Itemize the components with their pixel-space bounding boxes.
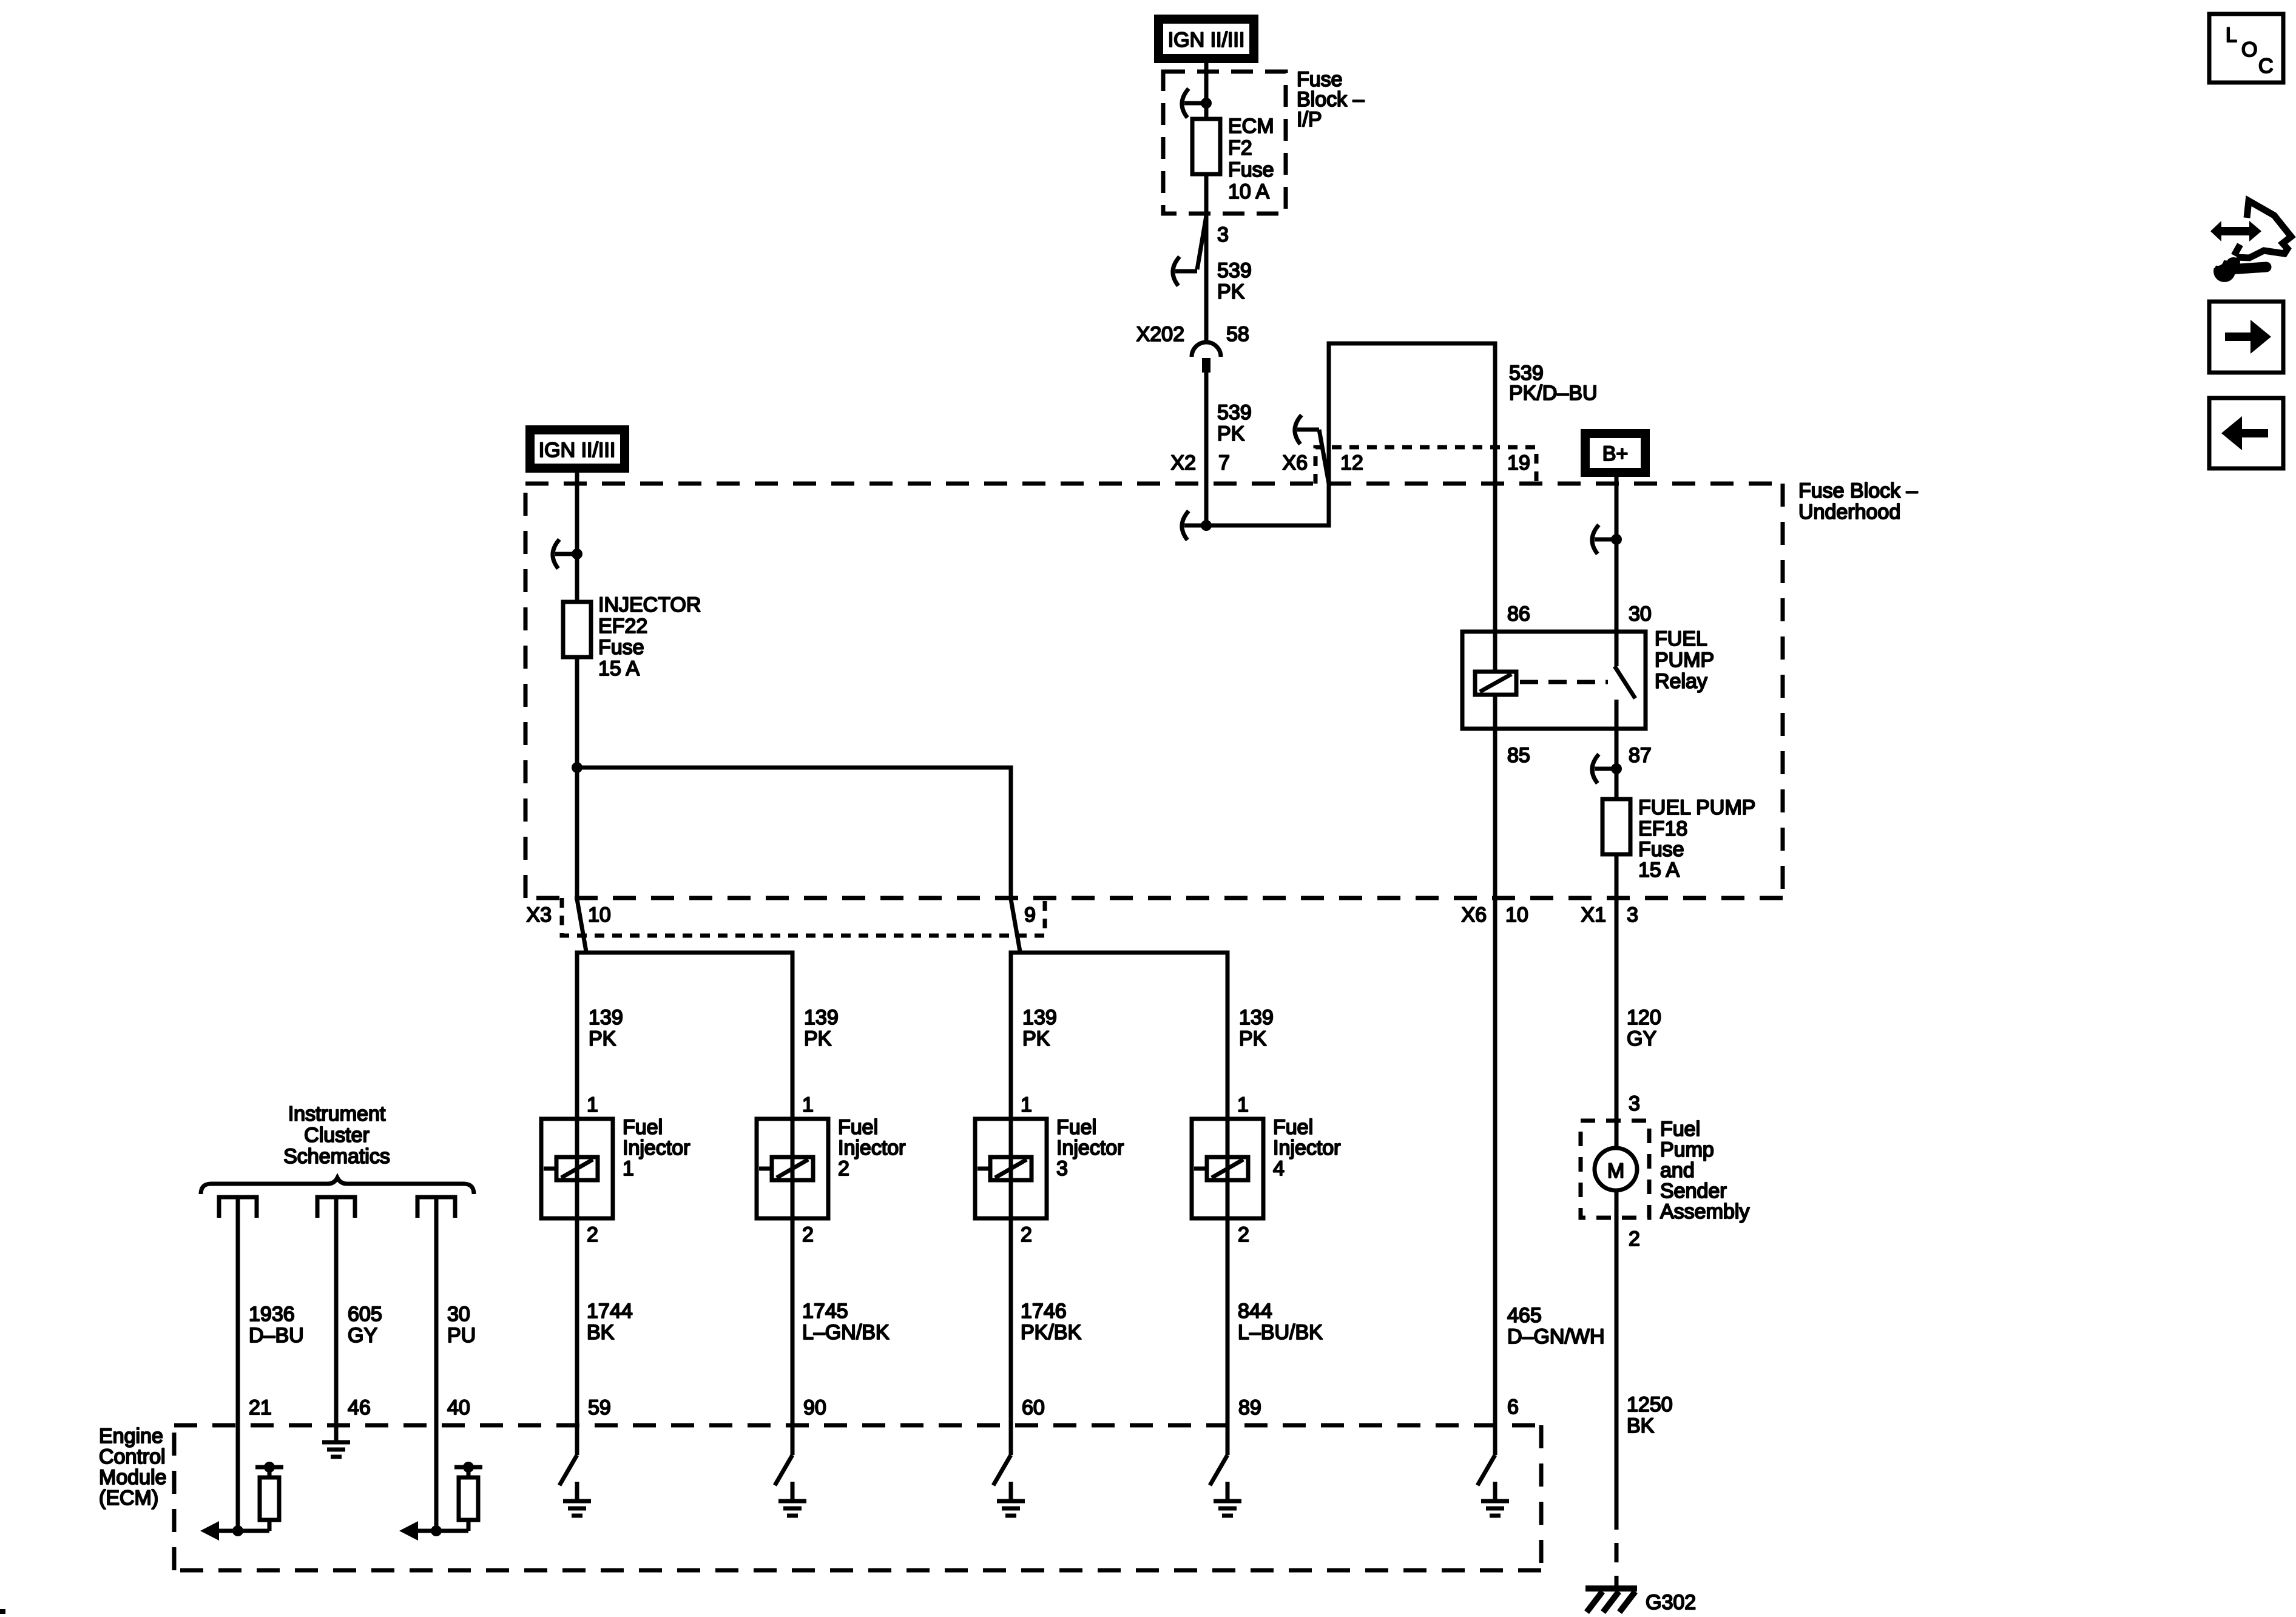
connector lead slant at X3 pin 10 bbox=[577, 899, 586, 951]
wire loop to relay coil: right, up, across, down to pin 86 bbox=[1206, 343, 1495, 632]
svg-text:PK: PK bbox=[804, 1027, 832, 1050]
svg-text:Fuel: Fuel bbox=[1056, 1116, 1096, 1139]
fuel pump dashed box bbox=[1581, 1121, 1649, 1218]
svg-text:465: 465 bbox=[1507, 1304, 1542, 1327]
connector strip X3/10/9 dotted outline bbox=[562, 898, 1045, 936]
svg-text:87: 87 bbox=[1629, 744, 1652, 767]
svg-text:60: 60 bbox=[1022, 1396, 1045, 1419]
svg-text:1: 1 bbox=[587, 1093, 598, 1116]
ECM internal resistor branch 2 (pin 40) bbox=[454, 1462, 482, 1531]
wire label 1746 PK/BK bbox=[1021, 1300, 1081, 1344]
ground injector 4 driver bbox=[1214, 1482, 1241, 1516]
svg-text:3: 3 bbox=[1217, 223, 1229, 246]
power tag IGN II/III (top, fuse block I/P feed) bbox=[1154, 15, 1258, 63]
svg-text:Cluster: Cluster bbox=[304, 1124, 370, 1147]
wire label 1745 L-GN/BK bbox=[802, 1300, 890, 1344]
svg-text:PK/D–BU: PK/D–BU bbox=[1509, 382, 1598, 405]
wire label 539 PK/D-BU bbox=[1509, 362, 1598, 405]
connector lead slant at X6 pin 12 bbox=[1319, 430, 1329, 484]
svg-text:3: 3 bbox=[1627, 903, 1638, 927]
svg-text:Fuel: Fuel bbox=[838, 1116, 878, 1139]
wire EF22 output down to X3 pin 10 bbox=[575, 657, 579, 898]
svg-text:X6: X6 bbox=[1282, 451, 1308, 474]
engine control module dashed box bbox=[174, 1425, 1541, 1570]
svg-text:2: 2 bbox=[1021, 1223, 1032, 1246]
ground G302 (chassis) bbox=[1585, 1588, 1637, 1612]
svg-text:and: and bbox=[1660, 1159, 1695, 1182]
page artifact dot bottom-left bbox=[0, 1609, 5, 1614]
junction node at EF22 input bbox=[572, 549, 582, 559]
splice hook on B+ feed bbox=[1592, 525, 1616, 554]
icon LOC box bbox=[2209, 14, 2283, 83]
label Engine Control Module (ECM) bbox=[99, 1425, 167, 1510]
svg-text:B+: B+ bbox=[1602, 442, 1629, 465]
svg-text:2: 2 bbox=[802, 1223, 814, 1246]
svg-text:90: 90 bbox=[803, 1396, 826, 1419]
wire label 139 PK (injector 1) bbox=[589, 1006, 623, 1050]
svg-text:D–GN/WH: D–GN/WH bbox=[1507, 1325, 1605, 1348]
svg-text:L–BU/BK: L–BU/BK bbox=[1238, 1321, 1323, 1344]
splice hook at fuse F2 input bbox=[1182, 89, 1206, 118]
svg-text:7: 7 bbox=[1218, 451, 1230, 474]
wire 539 PK from X202 to fuse block underhood X2 pin 7 bbox=[1204, 372, 1209, 525]
svg-text:Pump: Pump bbox=[1660, 1138, 1714, 1161]
svg-text:Injector: Injector bbox=[623, 1136, 690, 1160]
label Fuse Block - I/P bbox=[1297, 68, 1365, 131]
svg-text:139: 139 bbox=[1239, 1006, 1274, 1029]
label Fuel Injector 2 bbox=[838, 1116, 906, 1180]
svg-text:Module: Module bbox=[99, 1466, 167, 1489]
splice hook at EF22 input bbox=[553, 539, 577, 569]
svg-text:Underhood: Underhood bbox=[1798, 501, 1900, 524]
relay switch blade bbox=[1615, 666, 1635, 698]
wire injector 4 pin 2 to ECM pin 89 bbox=[1226, 1218, 1230, 1455]
svg-text:X3: X3 bbox=[526, 903, 552, 927]
wire label 844 L-BU/BK bbox=[1238, 1300, 1323, 1344]
wire label 139 PK (injector 3) bbox=[1022, 1006, 1057, 1050]
relay pin 87 wire bbox=[1615, 700, 1619, 729]
ground relay control driver bbox=[1481, 1482, 1509, 1516]
label Fuel Injector 1 bbox=[623, 1116, 690, 1180]
wire injector 3 pin 2 to ECM pin 60 bbox=[1009, 1218, 1013, 1455]
svg-text:85: 85 bbox=[1507, 744, 1530, 767]
label ECM F2 Fuse 10 A bbox=[1228, 115, 1274, 203]
svg-text:1744: 1744 bbox=[587, 1300, 633, 1323]
svg-text:Engine: Engine bbox=[99, 1425, 163, 1448]
svg-text:PK/BK: PK/BK bbox=[1021, 1321, 1081, 1344]
power tag B+ bbox=[1581, 429, 1650, 477]
junction node below pin 87 bbox=[1611, 763, 1622, 774]
label Fuel Injector 4 bbox=[1273, 1116, 1341, 1180]
ECM driver switch injector 3 bbox=[993, 1455, 1011, 1485]
svg-text:Injector: Injector bbox=[1273, 1136, 1341, 1160]
label FUEL PUMP Relay bbox=[1655, 627, 1714, 693]
junction node branch 2 bbox=[431, 1525, 442, 1536]
junction node at F2 input bbox=[1201, 98, 1212, 109]
wire label 139 PK (injector 2) bbox=[804, 1006, 839, 1050]
svg-text:Injector: Injector bbox=[838, 1136, 906, 1160]
svg-text:15 A: 15 A bbox=[1638, 859, 1680, 882]
wire label 30 PU bbox=[447, 1303, 476, 1347]
svg-text:X1: X1 bbox=[1581, 903, 1606, 927]
connector strip X6/12/19 dotted outline bbox=[1315, 447, 1536, 484]
svg-text:Relay: Relay bbox=[1655, 670, 1707, 693]
wire from pin 10 to fuel injector 1 and branch to injector 2 bbox=[577, 953, 792, 1119]
svg-text:21: 21 bbox=[249, 1396, 272, 1419]
wire relay pin 85 to X6 pin 10 bbox=[1493, 729, 1497, 898]
wire branch across to X3 pin 9 bbox=[577, 768, 1011, 898]
junction node on B+ feed bbox=[1611, 534, 1622, 545]
svg-text:INJECTOR: INJECTOR bbox=[598, 593, 701, 616]
svg-text:12: 12 bbox=[1340, 451, 1363, 474]
svg-text:Fuse: Fuse bbox=[1228, 158, 1274, 181]
svg-text:15 A: 15 A bbox=[598, 657, 640, 680]
label INJECTOR EF22 Fuse 15 A bbox=[598, 593, 701, 680]
svg-text:PU: PU bbox=[447, 1324, 476, 1347]
fuse EF18 (FUEL PUMP fuse 15A) bbox=[1602, 799, 1630, 854]
svg-text:139: 139 bbox=[804, 1006, 839, 1029]
svg-text:844: 844 bbox=[1238, 1300, 1272, 1323]
svg-text:3: 3 bbox=[1629, 1092, 1640, 1115]
svg-text:1745: 1745 bbox=[802, 1300, 848, 1323]
wire 1936 D-BU to ECM pin 21 bbox=[236, 1197, 240, 1531]
wire label 1744 BK bbox=[587, 1300, 633, 1344]
connector lead slant at X3 pin 9 bbox=[1011, 899, 1020, 951]
svg-text:Fuse: Fuse bbox=[1638, 838, 1684, 861]
brace under instrument cluster label bbox=[201, 1178, 474, 1194]
branch 2 bottom wire with arrow bbox=[399, 1521, 468, 1541]
fuel pump relay box bbox=[1462, 632, 1646, 729]
svg-text:139: 139 bbox=[1022, 1006, 1057, 1029]
connector stub (cluster wire 3) bbox=[417, 1197, 455, 1218]
svg-text:1936: 1936 bbox=[249, 1303, 295, 1326]
connector X202 pin 58 (半circle + pin) bbox=[1192, 342, 1221, 373]
svg-text:Fuse: Fuse bbox=[598, 636, 644, 659]
label Fuel Injector 3 bbox=[1056, 1116, 1124, 1180]
svg-text:EF22: EF22 bbox=[598, 615, 647, 638]
icon adjust tool (part outline) bbox=[2234, 201, 2291, 258]
svg-text:M: M bbox=[1607, 1160, 1624, 1183]
svg-text:Control: Control bbox=[99, 1445, 166, 1468]
junction node branch 1 bbox=[232, 1525, 243, 1536]
ECM driver switch injector 4 bbox=[1210, 1455, 1227, 1485]
wire label 605 GY bbox=[348, 1303, 382, 1347]
svg-text:1250: 1250 bbox=[1627, 1393, 1673, 1416]
ECM internal resistor branch 1 (pin 21) bbox=[255, 1462, 283, 1531]
svg-text:2: 2 bbox=[838, 1157, 849, 1180]
ground at ECM pin 46 bbox=[322, 1423, 350, 1457]
wire EF18 to X1 pin 3 bbox=[1615, 854, 1619, 898]
icon adjust tool (wrench) bbox=[2198, 245, 2266, 282]
svg-text:6: 6 bbox=[1507, 1396, 1519, 1419]
ECM driver switch injector 1 bbox=[559, 1455, 577, 1485]
wire label 1250 BK bbox=[1627, 1393, 1673, 1437]
svg-text:10: 10 bbox=[588, 903, 611, 927]
svg-text:D–BU: D–BU bbox=[249, 1324, 304, 1347]
svg-text:2: 2 bbox=[1238, 1223, 1249, 1246]
svg-text:40: 40 bbox=[447, 1396, 470, 1419]
fuse EF22 (INJECTOR fuse 15A) bbox=[563, 602, 591, 657]
fuel injector 2 (solenoid box) bbox=[757, 1119, 828, 1218]
svg-text:3: 3 bbox=[1056, 1157, 1068, 1180]
svg-text:Injector: Injector bbox=[1056, 1136, 1124, 1160]
ground injector 3 driver bbox=[997, 1482, 1025, 1516]
relay coil wire pin 86 to coil bbox=[1493, 632, 1497, 672]
splice hook below pin 87 bbox=[1592, 754, 1616, 783]
connector stub (cluster wire 2) bbox=[317, 1197, 355, 1218]
svg-text:2: 2 bbox=[587, 1223, 598, 1246]
label Fuel Pump and Sender Assembly bbox=[1660, 1118, 1749, 1223]
svg-text:1: 1 bbox=[1021, 1093, 1032, 1116]
hook at pin 3 lead bbox=[1173, 257, 1197, 286]
icon back arrow box bbox=[2209, 398, 2283, 468]
svg-text:O: O bbox=[2241, 38, 2257, 61]
label Fuse Block - Underhood bbox=[1798, 479, 1918, 524]
wire 465 D-GN/WH relay pin 85 to ECM pin 6 bbox=[1493, 898, 1497, 1455]
ground injector 1 driver bbox=[563, 1482, 591, 1516]
svg-text:PUMP: PUMP bbox=[1655, 649, 1714, 672]
svg-text:86: 86 bbox=[1507, 603, 1530, 626]
dashed wire to G302 bbox=[1615, 1510, 1619, 1587]
svg-text:539: 539 bbox=[1217, 259, 1252, 282]
relay pin 30 wire bbox=[1615, 632, 1619, 666]
svg-text:L–GN/BK: L–GN/BK bbox=[802, 1321, 890, 1344]
svg-text:GY: GY bbox=[1627, 1027, 1656, 1050]
svg-text:Fuel: Fuel bbox=[623, 1116, 663, 1139]
wire from IGN II/III into fuse block I/P bbox=[1204, 63, 1209, 119]
wire 539 PK from fuse F2 pin 3 to X202 bbox=[1204, 174, 1209, 342]
wire 120 GY X1 pin 3 to fuel pump bbox=[1615, 898, 1619, 1148]
wire from B+ to relay pin 30 bbox=[1615, 477, 1619, 632]
svg-text:BK: BK bbox=[1627, 1414, 1655, 1437]
svg-text:ECM: ECM bbox=[1228, 115, 1274, 138]
connector stub (cluster wire 1) bbox=[219, 1197, 257, 1218]
ground injector 2 driver bbox=[778, 1482, 806, 1516]
svg-text:C: C bbox=[2258, 55, 2274, 78]
svg-text:FUEL PUMP: FUEL PUMP bbox=[1638, 796, 1755, 819]
svg-text:PK: PK bbox=[1022, 1027, 1050, 1050]
svg-text:F2: F2 bbox=[1228, 137, 1252, 160]
relay coil (rect with slash) bbox=[1475, 672, 1516, 695]
wire relay pin 87 to fuse EF18 bbox=[1615, 729, 1619, 799]
hook at X6 pin 12 lead bbox=[1295, 415, 1319, 444]
svg-text:PK: PK bbox=[589, 1027, 616, 1050]
svg-text:PK: PK bbox=[1217, 422, 1245, 445]
wire 1250 BK pump pin 2 to ground bbox=[1615, 1190, 1619, 1510]
svg-text:30: 30 bbox=[447, 1303, 470, 1326]
wire label 539 PK bbox=[1217, 259, 1252, 303]
ECM driver switch injector 2 bbox=[775, 1455, 792, 1485]
svg-text:Fuel: Fuel bbox=[1660, 1118, 1700, 1141]
svg-text:X202: X202 bbox=[1136, 323, 1184, 346]
svg-text:Assembly: Assembly bbox=[1660, 1200, 1749, 1223]
svg-text:Schematics: Schematics bbox=[283, 1145, 390, 1168]
svg-text:58: 58 bbox=[1226, 323, 1249, 346]
svg-text:L: L bbox=[2226, 24, 2237, 47]
label FUEL PUMP EF18 Fuse 15 A bbox=[1638, 796, 1755, 882]
svg-text:10: 10 bbox=[1505, 903, 1528, 927]
svg-text:Instrument: Instrument bbox=[288, 1102, 386, 1126]
icon adjust tool (double arrow) bbox=[2210, 221, 2261, 241]
power tag IGN II/III (injector fuse feed) bbox=[525, 425, 629, 473]
fuel injector 4 (solenoid box) bbox=[1192, 1119, 1263, 1218]
ECM driver switch relay control bbox=[1477, 1455, 1495, 1485]
svg-text:19: 19 bbox=[1507, 451, 1530, 474]
svg-text:G302: G302 bbox=[1646, 1591, 1696, 1614]
svg-text:PK: PK bbox=[1217, 280, 1245, 303]
svg-text:X6: X6 bbox=[1461, 903, 1487, 927]
relay coil to pin 85 wire bbox=[1493, 695, 1497, 729]
wire injector 2 pin 2 to ECM pin 90 bbox=[791, 1218, 795, 1455]
svg-text:139: 139 bbox=[589, 1006, 623, 1029]
svg-text:1: 1 bbox=[802, 1093, 814, 1116]
svg-text:46: 46 bbox=[348, 1396, 371, 1419]
wire label 120 GY bbox=[1627, 1006, 1661, 1050]
relay actuating dashed link bbox=[1520, 680, 1608, 684]
svg-text:Fuse Block –: Fuse Block – bbox=[1798, 479, 1918, 502]
wire label 539 PK bbox=[1217, 401, 1252, 445]
svg-text:BK: BK bbox=[587, 1321, 615, 1344]
label Instrument Cluster Schematics bbox=[283, 1102, 390, 1168]
svg-text:89: 89 bbox=[1238, 1396, 1261, 1419]
wire from IGN II/III into underhood block bbox=[575, 473, 579, 602]
svg-text:10 A: 10 A bbox=[1228, 180, 1269, 203]
fuse block I/P dashed box bbox=[1163, 72, 1286, 214]
svg-text:605: 605 bbox=[348, 1303, 382, 1326]
svg-text:59: 59 bbox=[588, 1396, 611, 1419]
svg-text:9: 9 bbox=[1024, 903, 1036, 927]
fuse block underhood dashed box bbox=[525, 484, 1783, 898]
fuel pump motor M bbox=[1595, 1148, 1637, 1190]
wire 30 PU to ECM pin 40 bbox=[434, 1197, 439, 1531]
branch 1 bottom wire with arrow bbox=[200, 1521, 269, 1541]
splice hook at junction bbox=[1182, 511, 1206, 540]
svg-text:1: 1 bbox=[1237, 1093, 1249, 1116]
connector lead slant at pin 3 bbox=[1197, 216, 1206, 269]
wire 605 GY to ECM pin 46 bbox=[334, 1197, 339, 1440]
svg-text:2: 2 bbox=[1629, 1227, 1640, 1251]
svg-text:30: 30 bbox=[1629, 603, 1652, 626]
svg-text:539: 539 bbox=[1217, 401, 1252, 424]
wire label 465 D-GN/WH bbox=[1507, 1304, 1605, 1348]
svg-text:GY: GY bbox=[348, 1324, 377, 1347]
svg-text:1746: 1746 bbox=[1021, 1300, 1067, 1323]
fuel injector 1 (solenoid box) bbox=[541, 1119, 613, 1218]
svg-text:1: 1 bbox=[623, 1157, 634, 1180]
svg-text:(ECM): (ECM) bbox=[99, 1487, 158, 1510]
svg-text:4: 4 bbox=[1273, 1157, 1285, 1180]
svg-text:PK: PK bbox=[1239, 1027, 1267, 1050]
wire injector 1 pin 2 to ECM pin 59 bbox=[575, 1218, 579, 1455]
wire from pin 9 to fuel injector 3 and branch to injector 4 bbox=[1011, 953, 1227, 1119]
wire label 139 PK (injector 4) bbox=[1239, 1006, 1274, 1050]
svg-text:EF18: EF18 bbox=[1638, 817, 1687, 840]
svg-text:X2: X2 bbox=[1170, 451, 1196, 474]
svg-text:I/P: I/P bbox=[1297, 108, 1322, 131]
svg-text:120: 120 bbox=[1627, 1006, 1661, 1029]
svg-text:Sender: Sender bbox=[1660, 1180, 1727, 1203]
svg-text:IGN II/III: IGN II/III bbox=[1168, 29, 1245, 52]
fuel injector 3 (solenoid box) bbox=[975, 1119, 1047, 1218]
wire label 1936 D-BU bbox=[249, 1303, 304, 1347]
icon forward arrow box bbox=[2209, 302, 2283, 373]
junction node on injector feed bbox=[572, 762, 582, 773]
fuse F2 (ECM fuse 10A) bbox=[1192, 119, 1220, 174]
junction node inside underhood block bbox=[1201, 520, 1212, 531]
svg-text:Fuel: Fuel bbox=[1273, 1116, 1313, 1139]
svg-text:FUEL: FUEL bbox=[1655, 627, 1707, 650]
svg-text:IGN II/III: IGN II/III bbox=[539, 439, 616, 462]
